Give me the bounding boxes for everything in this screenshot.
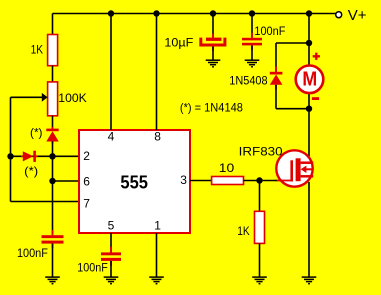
wire R3 to ground [259,243,261,276]
resistor R1 1K [48,35,58,66]
pin 2 label [83,149,90,163]
svg-text:100nF: 100nF [17,246,48,260]
wire mosfet to ground [308,182,310,277]
wire pin1 to ground [156,233,158,277]
svg-text:(*) = 1N4148: (*) = 1N4148 [180,100,243,114]
pin 8 label [154,129,161,143]
pin 6 label [83,175,90,189]
svg-text:100nF: 100nF [254,24,285,38]
label 1N5408 [229,73,268,87]
terminal V+ [336,12,342,18]
svg-text:100K: 100K [58,91,87,105]
label V+ [348,7,367,24]
svg-text:10µF: 10µF [164,35,193,49]
wire pin4 to bus [110,14,112,131]
svg-text:6: 6 [83,175,90,189]
wire motor to mosfet [308,94,310,156]
svg-text:5: 5 [108,219,115,233]
ground below C4 [245,60,260,67]
svg-text:1K: 1K [237,224,250,238]
pin 3 label [180,173,187,187]
svg-text:(*): (*) [30,126,43,140]
svg-text:100nF: 100nF [77,260,108,274]
wire pin8 to bus [156,14,158,131]
pin 1 label [154,219,161,233]
wire bus down to motor [308,14,310,65]
wire diode branch top [276,42,309,44]
capacitor C2 100nF pin5 [101,247,121,266]
svg-text:2: 2 [83,149,90,163]
svg-text:4: 4 [108,129,115,143]
wire pin3 out [190,180,212,182]
wire diode branch bottom [276,108,309,110]
capacitor C1 100nF [42,230,64,248]
label (*) = 1N4148 [180,100,243,114]
node diode branch bottom junction [306,106,312,112]
wire C4 to ground [251,45,253,59]
label 10 [219,161,235,175]
svg-text:V+: V+ [348,7,367,24]
wire V+ supply bus [53,13,336,15]
svg-text:IRF830: IRF830 [239,144,283,158]
svg-text:555: 555 [120,171,148,192]
node motor bus junction [306,10,312,16]
wire pin5 down [110,233,112,252]
transistor Q1 internals [290,158,313,181]
transistor Q1 IRF830 body [276,150,312,186]
ground below C1 [45,277,60,284]
svg-text:1: 1 [154,219,161,233]
node D1-pin2 junction [49,153,55,159]
node C3 bus junction [210,10,216,16]
label motor minus [312,97,319,100]
capacitor C3 10uF polarized [201,34,225,52]
node pin4 bus junction [108,10,114,16]
wire C1 to ground [52,244,54,277]
label 100K [58,91,87,105]
op-amp U1 555 body [79,130,190,233]
label 100nF pin5 [77,260,108,274]
node pin6 junction [49,178,55,184]
node pin8 bus junction [153,10,159,16]
svg-text:(*): (*) [24,164,38,178]
wire gate into Q1 [276,180,292,182]
svg-text:1N5408: 1N5408 [229,73,268,87]
wire left vertical from wiper [10,97,12,201]
resistor R2 10 [212,177,244,185]
wire D3 to bottom [275,85,277,109]
wire pin6 row [53,180,80,182]
diode D2 (*) horizontal [21,151,38,162]
wire R2 to gate node [244,180,276,182]
svg-text:M: M [302,68,317,91]
svg-text:10: 10 [219,161,235,175]
wire bus to R1 [52,14,54,35]
resistor R3 1K [255,211,265,243]
pin 5 label [108,219,115,233]
label 1K [31,43,43,57]
node C4 bus junction [249,10,255,16]
svg-text:3: 3 [180,173,187,187]
motor M1 [296,66,324,94]
wiper arrow of P1 [11,93,48,102]
wire pin7 row [11,201,80,203]
potentiometer P1 100K [48,82,58,116]
diode D3 1N5408 [270,67,283,90]
node wiper-D2 junction [7,153,13,159]
node diode branch top junction [306,40,312,46]
label 100nF bottom-left [17,246,48,260]
label 100nF top [254,24,285,38]
ground below mosfet [302,277,317,284]
ground below R3 [252,277,267,284]
svg-text:7: 7 [83,196,90,210]
label (*) upper [30,126,43,140]
svg-text:8: 8 [154,129,161,143]
label IRF830 [239,144,283,158]
wire C3 to ground [212,47,214,60]
ground below C3 [206,60,221,67]
wire R1 to P1 [52,66,54,82]
wire D1 down to C1 [52,142,54,236]
diode D1 (*) vertical [46,127,58,144]
wire P1 to D1 [52,116,54,129]
wire C2 to ground [110,261,112,277]
wire pin2 row [11,155,80,157]
label 1K right [237,224,250,238]
label (*) lower [24,164,38,178]
label 555 [120,171,148,192]
ground below C2 [104,277,119,284]
capacitor C4 100nF [242,33,262,50]
node gate junction [256,177,262,183]
ground below pin1 [149,277,164,284]
pin 4 label [108,129,115,143]
wire gate node down to R3 [259,181,261,212]
svg-text:1K: 1K [31,43,43,57]
wire top to D3 [275,43,277,72]
label motor plus [313,53,320,60]
label 10uF [164,35,193,49]
pin 7 label [83,196,90,210]
wire bus to C4 [251,14,253,38]
wire bus to C3 [212,14,214,39]
